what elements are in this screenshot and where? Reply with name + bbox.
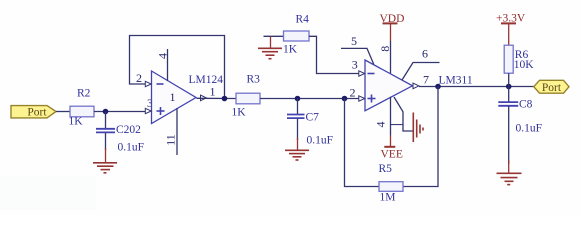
svg-text:1M: 1M	[380, 192, 396, 204]
wire	[94, 111, 146, 113]
node junction R6/C8	[506, 84, 512, 90]
svg-text:7: 7	[423, 73, 429, 87]
comparator U2 LM311	[359, 60, 413, 111]
wire R6 to junction	[508, 73, 510, 86]
pin 4 power pin U1	[156, 49, 170, 81]
wire	[56, 111, 70, 113]
pin 8 power pin U2	[378, 41, 392, 73]
+3.3V power port	[496, 13, 526, 46]
pin 11 power pin U1	[164, 108, 178, 155]
pin 1 ground stub U2	[394, 97, 423, 142]
wire feedback loop R5	[345, 99, 380, 187]
wire output U2 to port	[419, 86, 534, 88]
pin 4 power pin U2 / VEE	[374, 97, 404, 161]
resistor R2	[69, 88, 95, 128]
pin 6 stub LM311	[402, 47, 440, 81]
ground C7	[285, 138, 309, 160]
ground R4	[258, 36, 284, 58]
wire R3 to LM311 pin2	[260, 98, 359, 100]
output arrow U2 pin 7	[413, 73, 473, 89]
capacitor C7	[287, 99, 333, 147]
svg-text:Port: Port	[542, 82, 562, 94]
node junction C7	[295, 96, 301, 102]
svg-text:4: 4	[156, 53, 170, 59]
ground C202	[93, 148, 117, 173]
svg-text:R4: R4	[296, 14, 310, 26]
svg-text:1: 1	[170, 90, 176, 104]
svg-text:C202: C202	[116, 124, 141, 136]
svg-text:3: 3	[352, 58, 358, 72]
svg-text:2: 2	[136, 71, 142, 85]
svg-text:R3: R3	[247, 74, 261, 86]
port P_right	[534, 80, 569, 94]
node junction feedback	[435, 84, 441, 90]
svg-text:0.1uF: 0.1uF	[516, 123, 543, 135]
wire output U1 to R3	[197, 97, 237, 99]
node junction R2/C202	[103, 109, 109, 115]
svg-text:0.1uF: 0.1uF	[307, 134, 334, 146]
svg-text:1: 1	[210, 85, 216, 99]
svg-text:1K: 1K	[283, 44, 298, 56]
svg-text:10K: 10K	[514, 59, 535, 71]
VDD power port	[380, 13, 405, 41]
svg-text:6: 6	[422, 47, 428, 61]
ground C8	[497, 160, 522, 185]
svg-text:0.1uF: 0.1uF	[118, 142, 145, 154]
op-amp U1 LM124	[145, 71, 223, 124]
resistor R4	[283, 14, 309, 56]
svg-text:Port: Port	[27, 107, 47, 119]
svg-text:R5: R5	[379, 163, 393, 175]
pin 5 stub LM311	[341, 34, 374, 65]
svg-text:1K: 1K	[232, 107, 247, 119]
svg-text:C8: C8	[519, 99, 533, 111]
svg-text:VEE: VEE	[381, 149, 403, 161]
node junction feedback R5	[342, 96, 348, 102]
wire R4 to LM311 pin3	[309, 36, 359, 73]
svg-text:LM124: LM124	[189, 74, 224, 86]
svg-text:C7: C7	[306, 112, 320, 124]
svg-text:LM311: LM311	[439, 75, 473, 87]
resistor R5	[379, 163, 404, 204]
port P_left	[11, 106, 56, 119]
capacitor C8	[498, 87, 542, 165]
resistor R3	[232, 74, 261, 119]
output arrow U1 pin 1	[201, 85, 216, 101]
node junction output/feedback	[222, 96, 228, 102]
svg-text:8: 8	[378, 46, 392, 52]
wire feedback loop U1	[130, 36, 225, 99]
svg-text:5: 5	[351, 34, 357, 48]
svg-text:4: 4	[374, 122, 388, 128]
svg-text:11: 11	[164, 134, 178, 146]
resistor R6	[504, 45, 534, 73]
svg-text:2: 2	[350, 86, 356, 100]
svg-text:1K: 1K	[69, 116, 84, 128]
svg-text:R2: R2	[77, 88, 91, 100]
capacitor C202	[96, 112, 144, 154]
